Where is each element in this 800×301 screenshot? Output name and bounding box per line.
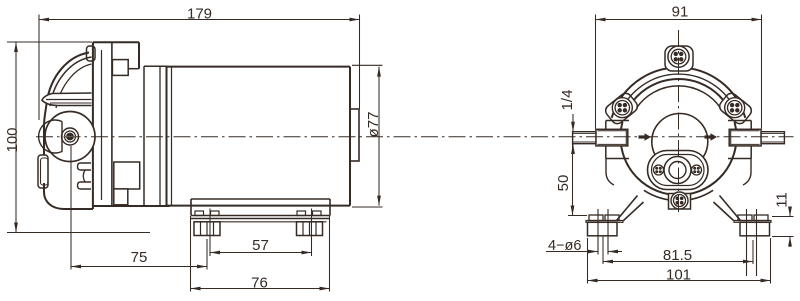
svg-text:57: 57 xyxy=(252,237,269,254)
svg-text:100: 100 xyxy=(4,127,21,152)
svg-text:91: 91 xyxy=(672,4,689,21)
svg-text:179: 179 xyxy=(187,6,212,23)
svg-text:76: 76 xyxy=(251,275,268,292)
svg-text:ø77: ø77 xyxy=(365,112,382,138)
svg-text:11: 11 xyxy=(774,192,791,208)
svg-text:50: 50 xyxy=(555,175,572,192)
svg-text:101: 101 xyxy=(666,266,691,283)
svg-text:1/4: 1/4 xyxy=(559,90,576,111)
svg-text:81.5: 81.5 xyxy=(663,247,692,264)
svg-text:75: 75 xyxy=(131,249,148,266)
